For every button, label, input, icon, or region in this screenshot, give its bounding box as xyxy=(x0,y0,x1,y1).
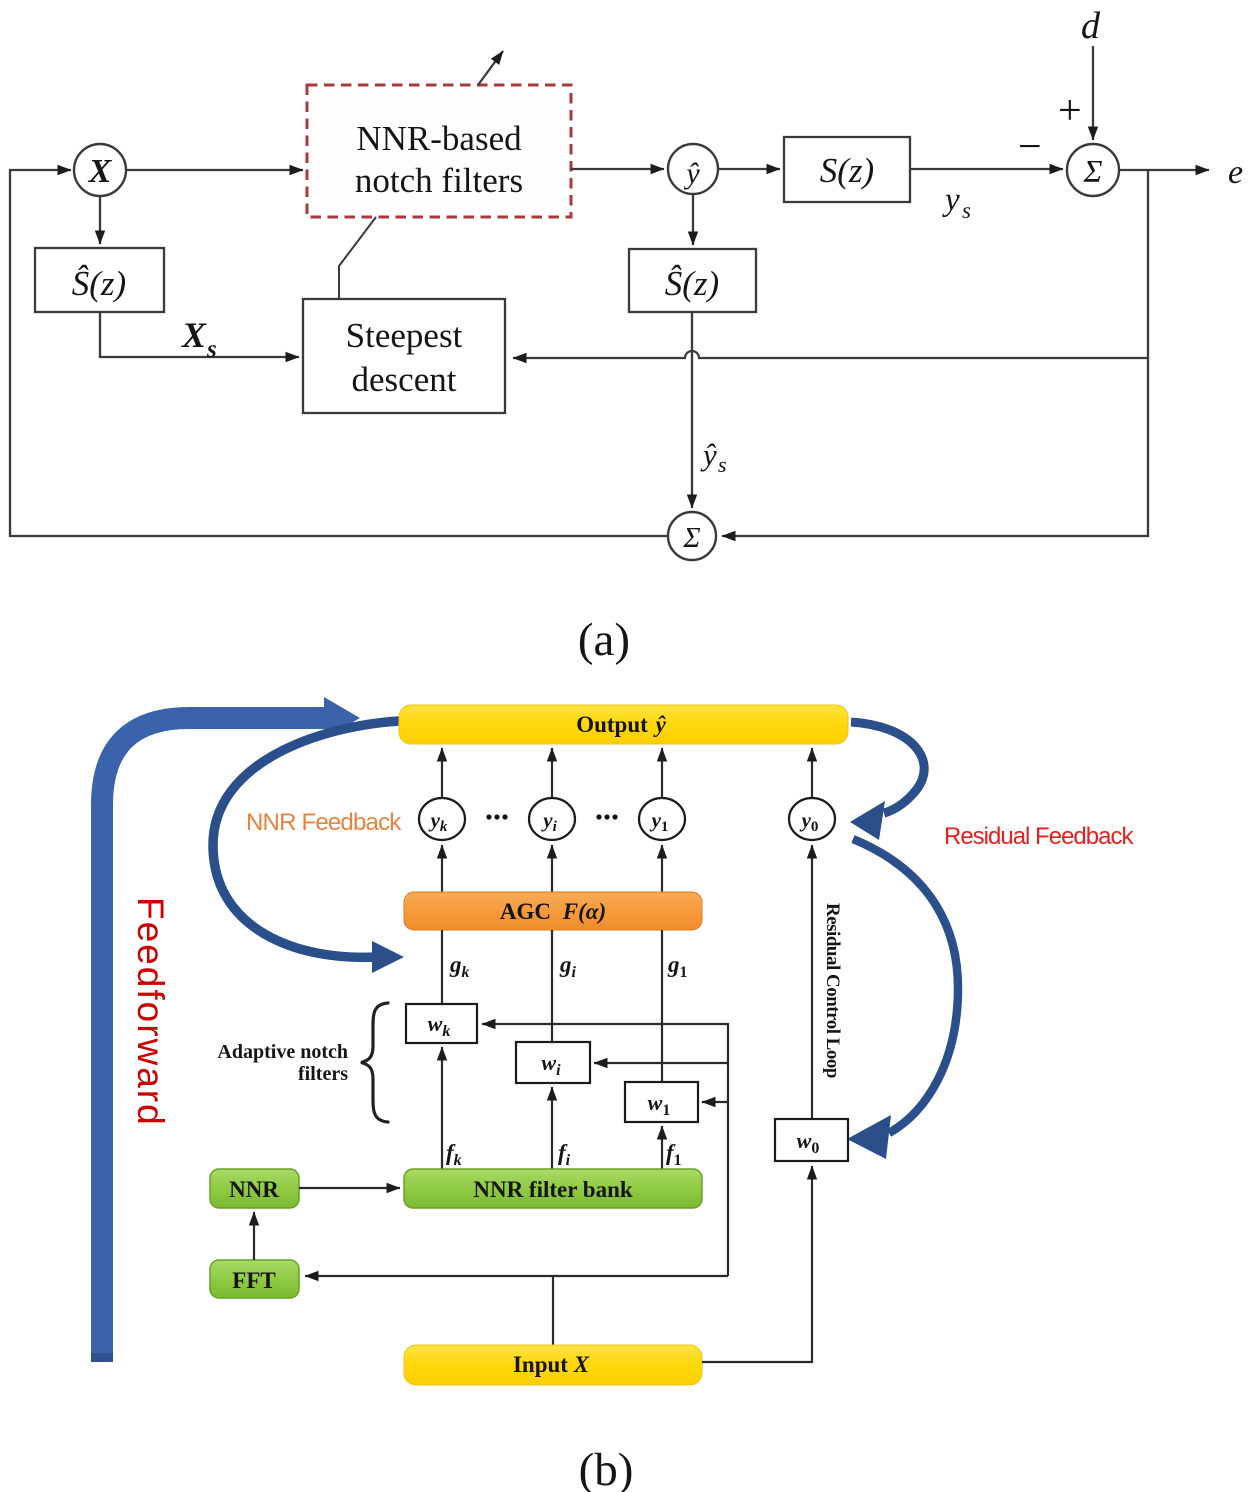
wire yi to output xyxy=(551,748,553,798)
svg-text:NNR filter bank: NNR filter bank xyxy=(473,1177,633,1202)
wire FFT up to NNR xyxy=(253,1212,255,1260)
wire NNR to filter bank xyxy=(299,1187,400,1189)
wire: error bus to steepest descent (with hop over crossing) xyxy=(513,351,1148,358)
block w0 xyxy=(775,1119,848,1161)
wire S-hat1 to steepest descent, net Xs xyxy=(100,312,299,357)
svg-text:notch filters: notch filters xyxy=(355,161,523,200)
svg-text:gk: gk xyxy=(449,952,470,981)
node y1 xyxy=(639,798,685,840)
svg-text:NNR Feedback: NNR Feedback xyxy=(246,809,402,836)
wire y0 to output xyxy=(811,748,813,798)
svg-text:fi: fi xyxy=(558,1140,571,1169)
svg-text:FFT: FFT xyxy=(232,1268,275,1293)
svg-text:s: s xyxy=(718,452,727,477)
wire S-hat2 down to lower summer, net ys-hat xyxy=(691,312,693,508)
NNR feedback curved arrow xyxy=(213,721,399,957)
svg-text:descent: descent xyxy=(352,360,457,399)
svg-text:Σ: Σ xyxy=(682,522,700,554)
block NNR filter bank xyxy=(404,1169,702,1208)
wire AGC to yi xyxy=(551,845,553,892)
wire AGC to y1 xyxy=(661,845,663,892)
svg-text:Σ: Σ xyxy=(1082,153,1102,189)
summer SIGMA1 (circle) xyxy=(1067,144,1119,196)
svg-text:AGC F(α): AGC F(α) xyxy=(500,899,606,924)
node yk xyxy=(419,798,465,840)
dots between yi and y1 xyxy=(596,814,601,819)
svg-text:X: X xyxy=(88,153,113,190)
wire input X up to FFT line xyxy=(552,1276,554,1345)
svg-text:s: s xyxy=(206,336,217,363)
svg-text:S(z): S(z) xyxy=(820,151,874,190)
svg-text:Output ŷ: Output ŷ xyxy=(576,712,666,737)
svg-text:−: − xyxy=(1018,124,1042,170)
block S-hat(z) 1 xyxy=(35,248,164,312)
multiplier X1 (circle) xyxy=(74,144,126,196)
wire bank to wi, net fi xyxy=(551,1087,553,1169)
wire S(z) to summer, net ys xyxy=(910,168,1063,170)
wire notch filters to y-hat node xyxy=(571,168,664,170)
svg-text:Feedforward: Feedforward xyxy=(130,897,171,1127)
branch bus to w1 xyxy=(702,1101,728,1103)
node y0 xyxy=(789,798,835,840)
svg-text:Ŝ(z): Ŝ(z) xyxy=(665,263,719,303)
summer SIGMA2 (circle) xyxy=(668,512,716,560)
svg-text:Residual Control Loop: Residual Control Loop xyxy=(822,903,843,1078)
svg-text:e: e xyxy=(1228,154,1243,191)
svg-text:Input X: Input X xyxy=(513,1352,590,1377)
wire X1 to NNR notch filters xyxy=(126,169,303,171)
adjustment arrow on notch filters xyxy=(478,51,503,85)
dots between yk and yi xyxy=(486,814,491,819)
wire bus to FFT xyxy=(305,1275,728,1277)
callout line notch filters to steepest descent xyxy=(339,217,376,299)
svg-text:f1: f1 xyxy=(666,1140,682,1169)
wire bank to wk, net fk xyxy=(441,1047,443,1169)
AGC block xyxy=(404,892,702,930)
adaptation bus from FFT line to w blocks xyxy=(482,1024,728,1276)
feedforward thick blue arrow xyxy=(102,718,326,1362)
Input X bar xyxy=(404,1345,702,1385)
wire yk to output xyxy=(441,748,443,798)
residual feedback small loop arrow xyxy=(851,722,924,813)
svg-text:g1: g1 xyxy=(667,952,688,981)
residual feedback big curved arrow xyxy=(853,839,958,1133)
svg-text:(b): (b) xyxy=(579,1444,634,1492)
svg-text:NNR-based: NNR-based xyxy=(356,119,522,158)
block w1 xyxy=(625,1082,698,1122)
wire wi up to AGC, net gi xyxy=(551,930,553,1042)
wire bank to w1, net f1 xyxy=(661,1126,663,1169)
block S-hat(z) 2 xyxy=(629,249,756,312)
branch bus to wi xyxy=(594,1062,728,1064)
svg-text:ŷ: ŷ xyxy=(683,157,700,190)
wire AGC to yk xyxy=(441,845,443,892)
svg-text:X: X xyxy=(181,315,207,355)
wire: error bus down right side to lower summer xyxy=(722,170,1148,536)
wire y-hat down to S-hat 2 xyxy=(692,194,694,245)
block Steepest descent xyxy=(303,299,505,413)
wire y1 to output xyxy=(661,748,663,798)
block NNR xyxy=(210,1169,299,1208)
NNR-based notch filters (dashed box) xyxy=(307,85,571,217)
svg-text:Steepest: Steepest xyxy=(346,316,463,355)
Output bar xyxy=(399,705,848,744)
svg-text:Adaptive notch: Adaptive notch xyxy=(217,1041,348,1063)
svg-text:fk: fk xyxy=(446,1140,462,1169)
curly brace xyxy=(361,1003,388,1122)
svg-text:Residual Feedback: Residual Feedback xyxy=(944,823,1134,850)
wire y-hat to S(z) xyxy=(719,168,780,170)
wire summer to error output e xyxy=(1119,169,1209,171)
svg-text:NNR: NNR xyxy=(229,1177,279,1202)
wire: lower-sum output left along bottom and up left bus into multiplier X xyxy=(10,170,668,536)
node y-hat (circle) xyxy=(668,144,718,194)
svg-text:d: d xyxy=(1081,5,1101,47)
node yi xyxy=(529,798,575,840)
wire wk up to AGC, net gk xyxy=(441,930,443,1004)
svg-text:y: y xyxy=(942,182,960,218)
wire d into summer xyxy=(1092,46,1094,140)
wire w0 up to y0 xyxy=(811,845,813,1119)
wire input X to w0 xyxy=(702,1166,812,1362)
wire w1 up to AGC, net g1 xyxy=(661,930,663,1082)
svg-text:Ŝ(z): Ŝ(z) xyxy=(72,263,126,303)
svg-text:filters: filters xyxy=(298,1063,348,1085)
svg-text:+: + xyxy=(1058,88,1082,134)
svg-text:gi: gi xyxy=(559,952,577,981)
block FFT xyxy=(210,1260,299,1298)
block S(z) xyxy=(784,137,910,202)
block wi xyxy=(516,1042,590,1083)
svg-text:ŷ: ŷ xyxy=(700,437,717,472)
svg-text:s: s xyxy=(962,198,971,223)
wire X1 down to S-hat 1 xyxy=(99,196,101,244)
block wk xyxy=(406,1004,477,1043)
svg-text:(a): (a) xyxy=(578,614,630,666)
